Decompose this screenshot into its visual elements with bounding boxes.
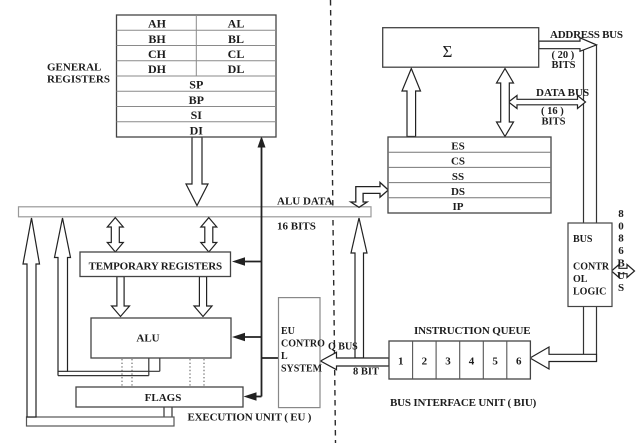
svg-text:6: 6 — [618, 245, 624, 257]
svg-text:( 16 ): ( 16 ) — [541, 106, 564, 117]
svg-text:16 BITS: 16 BITS — [277, 221, 316, 233]
svg-text:IP: IP — [453, 201, 464, 213]
svg-text:SP: SP — [189, 78, 203, 92]
svg-text:DL: DL — [228, 62, 245, 76]
svg-text:BUS INTERFACE UNIT ( BIU): BUS INTERFACE UNIT ( BIU) — [390, 397, 537, 409]
svg-text:CONTRO: CONTRO — [281, 339, 325, 350]
svg-text:S: S — [618, 282, 624, 294]
svg-text:Q BUS: Q BUS — [328, 342, 358, 353]
svg-text:ADDRESS BUS: ADDRESS BUS — [550, 29, 623, 41]
svg-text:DATA BUS: DATA BUS — [536, 87, 589, 99]
svg-text:6: 6 — [516, 356, 522, 368]
svg-text:8: 8 — [618, 208, 624, 220]
svg-text:L: L — [281, 351, 288, 362]
svg-text:REGISTERS: REGISTERS — [47, 74, 110, 86]
svg-text:FLAGS: FLAGS — [145, 392, 182, 404]
svg-text:BP: BP — [189, 93, 204, 107]
svg-text:AL: AL — [228, 17, 245, 31]
svg-text:ALU DATA: ALU DATA — [277, 196, 333, 208]
svg-text:CS: CS — [451, 156, 465, 168]
svg-text:EU: EU — [281, 326, 295, 337]
svg-text:BUS: BUS — [573, 234, 593, 245]
svg-text:ES: ES — [451, 140, 464, 152]
svg-text:U: U — [617, 270, 625, 282]
svg-text:SS: SS — [452, 171, 464, 183]
svg-text:INSTRUCTION QUEUE: INSTRUCTION QUEUE — [414, 325, 530, 337]
svg-text:Σ: Σ — [443, 42, 453, 61]
svg-text:OL: OL — [573, 274, 588, 285]
svg-text:0: 0 — [618, 220, 624, 232]
svg-text:BH: BH — [148, 32, 166, 46]
svg-text:TEMPORARY REGISTERS: TEMPORARY REGISTERS — [89, 261, 222, 273]
svg-text:CONTR: CONTR — [573, 262, 610, 273]
svg-text:DS: DS — [451, 186, 465, 198]
svg-text:LOGIC: LOGIC — [573, 287, 606, 298]
svg-text:1: 1 — [398, 356, 404, 368]
svg-text:8 BIT: 8 BIT — [353, 367, 379, 378]
svg-text:DH: DH — [148, 62, 167, 76]
svg-text:3: 3 — [445, 356, 451, 368]
svg-text:4: 4 — [469, 356, 475, 368]
svg-text:CH: CH — [148, 47, 167, 61]
svg-text:BITS: BITS — [542, 117, 566, 128]
svg-text:AH: AH — [148, 17, 167, 31]
svg-text:5: 5 — [492, 356, 498, 368]
svg-text:ALU: ALU — [136, 333, 159, 345]
svg-text:CL: CL — [228, 47, 245, 61]
svg-text:2: 2 — [422, 356, 428, 368]
svg-text:SYSTEM: SYSTEM — [281, 364, 323, 375]
svg-text:GENERAL: GENERAL — [47, 62, 101, 74]
svg-text:EXECUTION UNIT ( EU ): EXECUTION UNIT ( EU ) — [188, 412, 312, 424]
svg-text:SI: SI — [191, 108, 203, 122]
svg-text:DI: DI — [190, 123, 204, 137]
svg-text:BL: BL — [228, 32, 244, 46]
svg-text:B: B — [617, 258, 625, 270]
svg-text:BITS: BITS — [552, 60, 576, 71]
svg-text:8: 8 — [618, 233, 624, 245]
